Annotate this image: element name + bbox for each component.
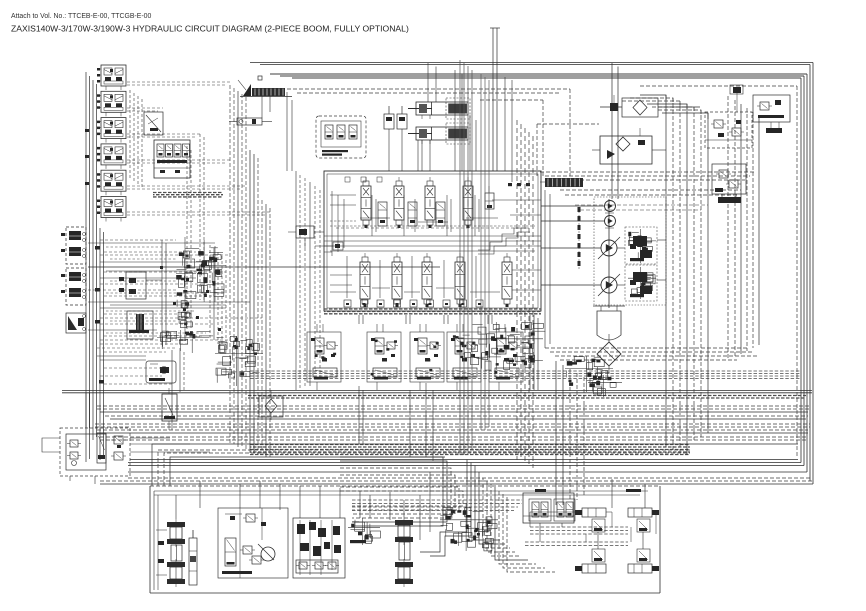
wire top dashed frame: [287, 89, 599, 176]
brake valve cluster: [293, 518, 345, 578]
suspension cylinder unit 1: [575, 508, 612, 532]
spool valve mid 1: [378, 202, 387, 226]
axle left wheel bottom: [167, 559, 185, 587]
suspension cylinder: [189, 530, 197, 585]
pilot valve module 7: [61, 227, 86, 264]
cylinder valve block 1: [384, 106, 407, 129]
pilot valve module 5: [97, 170, 126, 195]
wire right bundle top elbows: [622, 95, 708, 119]
wire right-down bundle: [556, 361, 584, 505]
counterbalance cluster: [588, 375, 622, 397]
solenoid box B: [127, 311, 153, 339]
wire bottom long line 472: [128, 471, 807, 473]
wire band 395 dashed: [248, 396, 806, 399]
travel pilot valve: [146, 361, 176, 383]
wire right vertical bus bundle: [801, 63, 813, 485]
svg-text:ZAXIS140W-3/170W-3/190W-3 HYDR: ZAXIS140W-3/170W-3/190W-3 HYDRAULIC CIRC…: [11, 24, 409, 34]
solenoid box A: [119, 272, 162, 299]
wire long horizontal 243: [88, 242, 215, 244]
wire mid-left texture verticals: [180, 245, 226, 392]
wire bottom long line 484: [100, 483, 813, 485]
wire block hatch band: [324, 309, 541, 314]
wire mid horizontal links: [88, 255, 262, 356]
right component box 3: [712, 164, 746, 203]
wire mid-left texture rows: [100, 240, 226, 384]
wire pump feeds: [541, 63, 618, 348]
wire center vertical bundle 1: [460, 60, 472, 455]
filter assembly top right: [600, 95, 700, 117]
wire suspension links: [530, 479, 656, 549]
axle left center: [156, 530, 182, 575]
wire bottom drop lines: [200, 472, 430, 540]
spool valve lower 2: [392, 253, 402, 307]
wire pump arrows column: [578, 207, 581, 270]
pilot valve module 1: [97, 65, 126, 90]
oil cooler diamond: [597, 334, 621, 374]
spool valve lower 5: [502, 253, 512, 307]
priority valve cluster: [440, 503, 498, 551]
wire center staircase bundle: [340, 457, 555, 572]
wire bottom dashed band B: [525, 542, 628, 546]
block left stub valve: [315, 242, 343, 252]
wire right horizontal rows lower: [545, 348, 757, 360]
accumulator charge unit: [523, 489, 575, 523]
spool valve mid 2: [408, 202, 417, 226]
cluster mid-left band: [215, 336, 263, 386]
wire station feeds: [359, 315, 538, 390]
solenoid manifold bar: [238, 80, 292, 97]
pilot pump 2: [605, 216, 616, 227]
wire bottom dashed band A: [530, 527, 628, 534]
wire center vertical bundle 2: [481, 74, 489, 430]
block inlet valve: [288, 226, 324, 248]
pilot valve module 6: [97, 197, 126, 222]
wire left vertical bus: [85, 72, 104, 462]
wire center vertical bundle 3: [517, 120, 533, 468]
valve station 3: [410, 324, 444, 390]
spool valve upper 4: [463, 177, 473, 228]
axle right wheel top: [395, 517, 413, 545]
wire mid dashed bundle: [230, 85, 246, 450]
boom cylinder 2: [408, 123, 470, 144]
pilot valve module 2: [97, 91, 126, 116]
wire regulator box: [625, 227, 657, 301]
wire bottom long dashed 478: [128, 477, 810, 479]
wire top bus bundle: [250, 63, 813, 79]
valve station 2: [367, 324, 401, 390]
mid bottom cluster: [348, 518, 380, 545]
svg-text:Attach to Vol. No.: TTCEB-E-00: Attach to Vol. No.: TTCEB-E-00, TTCGB-E-…: [11, 13, 151, 20]
wire right dashed bundle: [728, 96, 759, 360]
wire bottom section verticals: [176, 481, 404, 519]
spool valve upper 1: [361, 177, 371, 228]
valve station 5: [489, 324, 523, 390]
solenoid valve vertical: [162, 388, 177, 430]
wire mid-low verticals: [359, 140, 433, 461]
cluster top band: [157, 330, 213, 353]
spool block left: [154, 140, 190, 178]
filter box small: [259, 390, 283, 420]
cluster right of stations: [458, 322, 545, 370]
component column 3: [206, 246, 226, 302]
wire right horizontal rows upper: [540, 172, 755, 210]
component column 1: [176, 237, 199, 341]
cluster right mid: [565, 356, 613, 394]
wire bottom long line triple: [128, 460, 804, 466]
wire pump shaft: [605, 199, 614, 308]
hydraulic tank: [593, 306, 625, 340]
accumulator bar 2: [540, 178, 583, 187]
wire top-left risers: [262, 92, 292, 171]
spool valve lower 4: [455, 253, 465, 307]
spool valve mid 3: [436, 202, 445, 226]
pilot pump 1: [605, 201, 616, 212]
pump enclosure: [594, 197, 666, 305]
wire left low verticals: [86, 393, 130, 462]
main valve block frame: [324, 171, 541, 311]
pilot valve module 8: [61, 268, 86, 305]
regulator 1: [628, 229, 656, 263]
wire mid verticals: [162, 146, 191, 430]
right component box 2: [753, 95, 790, 133]
suspension cylinder unit 3: [575, 549, 606, 573]
wire double solid 390: [62, 391, 812, 393]
wire left ladder verticals: [130, 90, 204, 300]
wire bottom long dashed 481: [100, 480, 813, 482]
bottom section frame: [150, 486, 660, 593]
spool valve upper 3: [425, 177, 435, 228]
spool valve lower 1: [360, 253, 370, 307]
wire cylinder links: [389, 115, 476, 171]
wire band 406-419: [97, 406, 810, 419]
steering unit cluster: [218, 508, 288, 578]
wire right dashed frame: [640, 86, 797, 458]
wire long horizontal 267: [88, 266, 440, 268]
suspension cylinder unit 2: [626, 489, 659, 532]
wire block interior texture: [330, 191, 535, 298]
wire top center risers: [428, 28, 512, 182]
wire brick band left: [153, 193, 223, 197]
shuttle box: [144, 112, 163, 135]
boom cylinder 1: [408, 98, 470, 119]
wire left box links: [42, 438, 95, 484]
wire left-of-block verticals: [296, 171, 320, 390]
bottom inner dashed rows: [352, 500, 522, 511]
regulator 2: [628, 267, 656, 299]
spool valve lower 3: [422, 253, 432, 307]
suspension cylinder unit 4: [628, 549, 659, 573]
pilot shutoff dashed box: [316, 116, 366, 158]
axle right wheel bottom: [395, 559, 413, 587]
component column 2: [196, 240, 214, 302]
main pump 1: [598, 237, 620, 259]
valve station 1: [307, 324, 341, 390]
axle left wheel top: [167, 519, 185, 547]
main pump 2: [598, 274, 620, 296]
small square node: [258, 76, 262, 80]
right component box 1: [705, 112, 752, 148]
valve station 4: [447, 324, 481, 390]
wire staircase into bottom: [152, 444, 798, 486]
steering pump box: [60, 428, 210, 476]
oil cooler fan box: [592, 128, 666, 164]
spool small upper 5: [485, 186, 494, 209]
block small squares row: [345, 177, 530, 186]
spool valve upper 2: [394, 177, 404, 228]
wire brick band 447: [250, 445, 690, 455]
wire mid solid pair: [250, 150, 270, 457]
wire pump right links: [617, 240, 666, 285]
pilot valve module 4: [97, 144, 126, 169]
right component small: [730, 85, 743, 112]
wire right-mid vertical bundle: [666, 95, 708, 455]
wire block inner rails: [324, 195, 541, 290]
wire band 424-440: [95, 424, 810, 440]
axle right center: [399, 542, 410, 560]
pilot valve module 3: [97, 118, 126, 143]
wire band 371 dashed: [250, 371, 800, 379]
swing pilot module: [66, 313, 86, 333]
wire left module link ladder: [127, 82, 270, 215]
wire mid-left extra rows: [106, 247, 226, 333]
check valve line: [229, 118, 272, 125]
pilot caps row: [344, 300, 483, 307]
